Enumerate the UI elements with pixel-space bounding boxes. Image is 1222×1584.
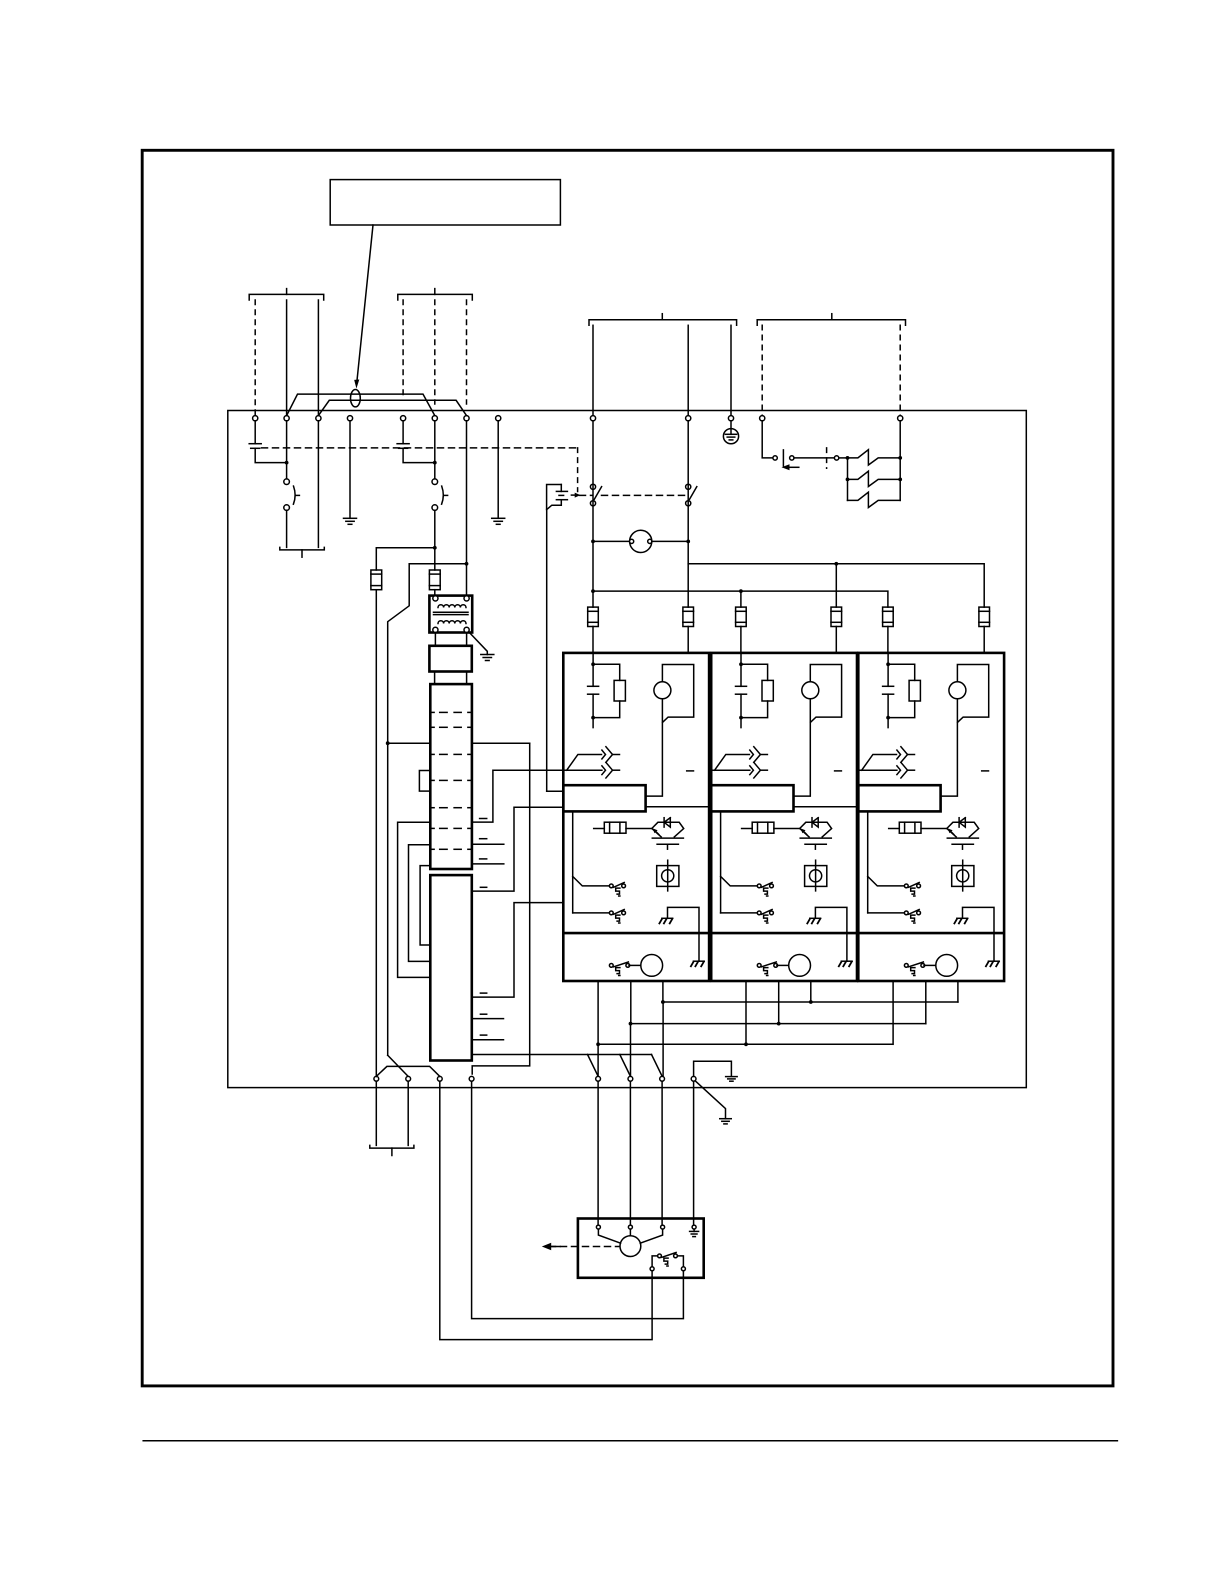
- terminal Y7: [660, 1076, 665, 1081]
- swing arrow: [542, 1243, 551, 1251]
- PM2 fan contact: [757, 964, 761, 968]
- jumper wire terminal3-terminal7: [318, 400, 466, 415]
- wire Y2 down to bracket: [407, 1081, 409, 1145]
- PM1 gate ground wire: [668, 907, 700, 961]
- sense wire node B jog to lower loom: [388, 564, 467, 1056]
- wire L3 to compressor bracket: [317, 421, 319, 548]
- wire terminal12 to door contact: [762, 421, 773, 458]
- compressor bracket 5: [280, 547, 325, 550]
- power module PM2 enclosure: [711, 653, 857, 981]
- PM1 gate resistor block: [594, 828, 605, 830]
- sense wire branch to control drop: [388, 742, 431, 744]
- PM2 plug contact P2a: [757, 884, 761, 888]
- terminal Y1: [374, 1076, 379, 1081]
- wire Y5 to CN3 pin1: [597, 1081, 599, 1225]
- PM1 terminal strip TB1: [563, 785, 645, 811]
- plug direction arrow: [782, 464, 790, 470]
- mechanical link dashed S1-S2: [580, 494, 593, 496]
- PM1 fan contact: [609, 964, 613, 968]
- PM3 output wires: [892, 981, 894, 1044]
- fuse F2: [683, 607, 694, 626]
- PM2 gate resistor block: [742, 828, 753, 830]
- PM2 section divider: [711, 932, 857, 935]
- PM3 lamp wire to strip: [941, 699, 958, 796]
- power module PM3 enclosure: [858, 653, 1004, 981]
- PM2 output wires: [745, 981, 747, 1044]
- wire F0 to terminal Y1: [375, 590, 377, 1076]
- junction on terminal6 line: [433, 461, 437, 465]
- wire drop to terminal 11: [730, 325, 732, 415]
- PM1 IGBT Q1: [652, 822, 684, 837]
- wire terminal10 through switch S2: [687, 421, 689, 607]
- bus diagonal to terminal Y5: [588, 1055, 599, 1077]
- wires CN1 to ribbon connector: [434, 672, 436, 685]
- cable bracket 3: [589, 320, 737, 326]
- wire L2 to switch K1: [286, 421, 288, 479]
- wire TH3 to module1 terminal strip: [546, 510, 548, 792]
- wire terminal9 through switch S1: [592, 421, 594, 607]
- bus diagonal to terminal Y6: [620, 1055, 631, 1077]
- PM1 output W continues: [662, 1002, 664, 1076]
- wire F5 to module3: [887, 627, 889, 653]
- terminal X13: [898, 416, 903, 421]
- CN2 pin row 6 (dashes): [431, 827, 435, 829]
- wire drop dashed to terminal 7: [466, 300, 468, 404]
- wire Y3 to remote connector: [440, 1081, 652, 1339]
- A1 pin stub e: [480, 992, 486, 994]
- pressure switch K1: [284, 479, 290, 485]
- wire Y8 to CN3 pin4: [693, 1081, 695, 1225]
- node A junction: [433, 546, 437, 550]
- jumper wire terminal2-terminal6: [287, 394, 435, 416]
- PM1 fan motor M1: [629, 964, 641, 966]
- PM2 left control wire: [720, 811, 722, 913]
- heater element R1 (break symbol): [848, 450, 901, 465]
- page border frame: [142, 150, 1113, 1386]
- PM3 capacitor C3: [887, 653, 889, 686]
- ribbon connector CN2: [430, 684, 472, 869]
- PM3 polarity dash: [982, 770, 989, 772]
- wire F7 to transformer: [434, 590, 436, 599]
- PM3 plug arrows: [858, 769, 897, 771]
- swing direction dashed line: [550, 1246, 620, 1248]
- wire terminal6 to switch K2: [434, 421, 436, 479]
- PM2 lamp wire to strip: [794, 699, 811, 796]
- leader line from label box to wire bundle: [357, 225, 373, 382]
- PM3 gate resistor block: [889, 828, 900, 830]
- interlock switch S2: [686, 484, 691, 489]
- connector CN1: [429, 646, 471, 672]
- PM1 lamp wire to strip: [646, 699, 663, 796]
- PM3 plug contact P3a: [904, 884, 908, 888]
- pressure switch K2: [432, 479, 438, 485]
- terminal X2: [284, 416, 289, 421]
- wire drop dashed to terminal 13: [899, 325, 901, 415]
- PM1 polarity dash: [687, 770, 694, 772]
- wire drop to terminal 10: [687, 325, 689, 415]
- PM2 IGBT Q2: [800, 822, 832, 837]
- fuse bus 2: [593, 591, 888, 607]
- terminal Y6: [628, 1076, 633, 1081]
- terminal Y5: [596, 1076, 601, 1081]
- PM1 plug contact P1a: [609, 884, 613, 888]
- PM2 chassis ground b: [841, 960, 852, 962]
- dashed contact tick: [826, 448, 828, 468]
- wire F4 to module2: [835, 627, 837, 653]
- CN3 pin 2: [628, 1225, 632, 1229]
- CN2 pin row 7 (dashes): [431, 848, 435, 850]
- PM2 capacitor C2: [740, 653, 742, 686]
- dashed link vertical: [577, 448, 579, 492]
- wrap wire W2: [409, 845, 431, 962]
- fuse F0: [371, 570, 382, 590]
- PM1 plug arrows: [563, 769, 602, 771]
- terminal X1: [253, 416, 258, 421]
- terminal Y3: [437, 1076, 442, 1081]
- PM2 plug arrows: [711, 769, 750, 771]
- PM3 chassis ground b: [988, 960, 999, 962]
- fuse F5: [883, 607, 894, 626]
- A1 wire to module1 edge: [472, 903, 562, 998]
- wire F3 to module2: [740, 627, 742, 653]
- junction on sense wire: [386, 741, 390, 745]
- PM3 terminal strip TB3: [858, 785, 940, 811]
- PM1 capacitor C1: [592, 653, 594, 686]
- wire F1 to module1: [592, 627, 594, 653]
- fuse F3 drop: [740, 591, 742, 607]
- fuse F4 drop: [835, 564, 837, 607]
- PM3 fan contact: [904, 964, 908, 968]
- terminal Y4: [469, 1076, 474, 1081]
- CN2 pin row 2 (dashes): [431, 726, 435, 728]
- cable bracket 2: [398, 294, 473, 300]
- interlock switch S1: [590, 484, 595, 489]
- terminal X6: [432, 416, 437, 421]
- wire K1 to compressor bracket: [286, 510, 288, 547]
- PM2 plug contact P2b: [757, 911, 761, 915]
- A1 pin stub g: [480, 1034, 486, 1036]
- defrost thermostat TH3 (plates): [547, 485, 562, 510]
- PM2 gate ground wire: [815, 907, 847, 961]
- cable bracket 1 (power supply 1): [249, 294, 324, 300]
- ground G5: [720, 1118, 732, 1120]
- wire transformer to ground G3: [469, 632, 488, 655]
- fan motor FM: [593, 540, 630, 542]
- A1 pin stub f: [480, 1013, 486, 1015]
- PM3 left control wire: [867, 811, 869, 913]
- PM3 chassis ground a: [957, 917, 968, 919]
- cable bracket 4: [757, 320, 905, 326]
- wire Y7 to CN3 pin3: [661, 1081, 663, 1225]
- wire drop dashed to terminal 6: [434, 300, 436, 404]
- strip link wire TB2-TB3: [794, 806, 859, 808]
- heater element R2 (break symbol): [848, 471, 901, 486]
- PM3 plug contact P3b: [904, 911, 908, 915]
- PM1 section divider: [563, 932, 709, 935]
- ground G4: [726, 1076, 738, 1078]
- output bus row C: [598, 1043, 893, 1045]
- PM2 chassis ground a: [810, 917, 821, 919]
- ground G1: [344, 517, 357, 519]
- wire Y4 to remote connector: [472, 1081, 684, 1318]
- PM1 output V continues: [630, 1024, 632, 1077]
- dashed link horizontal upper: [262, 447, 578, 449]
- terminal X3: [316, 416, 321, 421]
- PM2 resistor R2: [741, 664, 768, 680]
- A1 pin stub d: [480, 886, 486, 888]
- wire drop L3: [317, 300, 319, 416]
- thermal protector TH2: [402, 421, 404, 444]
- door contact CN-A: [773, 456, 777, 460]
- fuse bus 1: [688, 564, 984, 607]
- wire-bundle ellipse (loom marker): [351, 390, 361, 407]
- fuse F3: [736, 607, 747, 626]
- wire drop to terminal 9: [592, 325, 594, 415]
- outdoor unit bracket 6: [370, 1145, 414, 1148]
- bus diagonal to terminal Y7: [652, 1055, 663, 1077]
- wire drop L2: [286, 300, 288, 416]
- wire Y6 to CN3 pin2: [629, 1081, 631, 1225]
- CN3 pin4 ground: [693, 1229, 695, 1231]
- terminal Y8: [691, 1076, 696, 1081]
- terminal Y8 earth tail: [695, 1081, 725, 1119]
- wire terminal8 to ground: [497, 421, 499, 519]
- power module PM1 enclosure: [563, 653, 709, 981]
- CN3 motor wires: [598, 1229, 620, 1243]
- CN2 pin stub b: [480, 838, 487, 840]
- CN2 pin stub a: [480, 818, 487, 820]
- PM2 fan motor M2: [777, 964, 789, 966]
- wire terminal11 to protective earth: [730, 421, 732, 429]
- wire F6 to module3: [983, 627, 985, 653]
- footer rule: [143, 1440, 1117, 1442]
- CN3 pin 4: [692, 1225, 696, 1229]
- terminal X10: [686, 416, 691, 421]
- PM2 current sensor CT2: [805, 866, 827, 887]
- terminal X7: [464, 416, 469, 421]
- PM1 plug contact P1b: [609, 911, 613, 915]
- fan motor M4: [620, 1236, 641, 1257]
- wire F2 to module1: [687, 627, 689, 653]
- junction on L2: [285, 461, 289, 465]
- PM1 output U continues: [597, 1044, 599, 1076]
- terminal Y2: [406, 1076, 411, 1081]
- wire drop dashed to terminal 12: [761, 325, 763, 415]
- output bus row A: [663, 1001, 958, 1003]
- controller box A1: [430, 875, 472, 1060]
- crankcase heater ladder right rail: [899, 421, 901, 501]
- CN3 pin 3: [661, 1225, 665, 1229]
- wrap wire W3: [420, 866, 430, 945]
- CN2 key notch: [419, 771, 430, 792]
- link arrow: [571, 494, 576, 496]
- fan unit box CN3: [578, 1219, 704, 1278]
- CN3 limit contact: [658, 1254, 662, 1258]
- wire terminal7 down: [466, 421, 468, 599]
- terminal X11: [728, 416, 733, 421]
- node B junction: [465, 562, 469, 566]
- wire CN2 to module1 plug: [472, 770, 563, 822]
- thermal protector TH1 (battery-style plates): [254, 421, 256, 444]
- branch node A to fuse F0: [376, 548, 435, 570]
- PM3 section divider: [858, 932, 1004, 935]
- output bus row B: [631, 1023, 926, 1025]
- jumper terminal Y1-Y3: [376, 1066, 440, 1076]
- fuse F1: [588, 607, 599, 626]
- PM1 chassis ground b: [693, 960, 704, 962]
- PM3 charge lamp H3: [949, 682, 966, 699]
- PM1 resistor R1: [593, 664, 620, 680]
- fuse F4: [831, 607, 842, 626]
- CN2 pin stub c: [480, 858, 487, 860]
- callout label box (empty): [330, 180, 560, 225]
- crankcase heater ladder left rail: [847, 458, 849, 501]
- wire transformer to connector CN1: [434, 633, 436, 646]
- wire K2 down to node A: [434, 510, 436, 570]
- PM3 current sensor CT3: [952, 866, 974, 887]
- signal bus from A1 to terminals: [472, 1054, 652, 1056]
- terminal X5: [401, 416, 406, 421]
- heater element R3 (break symbol): [848, 492, 901, 507]
- A1 wire to module1 strip: [472, 807, 562, 891]
- CN2 pin row 5 (dashes): [431, 807, 435, 809]
- wrap wire W1: [398, 822, 431, 977]
- wire Y1 down to bracket: [375, 1081, 377, 1145]
- PM1 chassis ground a: [662, 917, 673, 919]
- terminal X8: [496, 416, 501, 421]
- CN3 bottom pin a: [652, 1256, 657, 1267]
- PM1 charge lamp H1: [654, 682, 671, 699]
- PM1 output wires: [597, 981, 599, 1044]
- PM2 polarity dash: [835, 770, 842, 772]
- protective earth symbol PE: [723, 429, 738, 444]
- wire drop dashed to terminal 5: [402, 300, 404, 400]
- terminal X4: [347, 416, 352, 421]
- PM2 terminal strip TB2: [711, 785, 793, 811]
- PM3 resistor R3: [888, 664, 915, 680]
- terminal Y8 ground loop: [694, 1061, 732, 1076]
- fuse F7 on terminal6 line: [429, 570, 440, 590]
- diagonal into terminal Y2: [388, 1055, 408, 1076]
- CN2 pin row 1 (dashes): [431, 711, 435, 713]
- CN3 bottom pin b: [678, 1256, 684, 1267]
- transformer T1: [429, 596, 472, 633]
- strip link wire TB1-TB2: [646, 806, 712, 808]
- wire drop L1 (dashed): [254, 300, 256, 415]
- main unit enclosure box: [228, 411, 1027, 1088]
- CN2 pin row 3 (dashes): [431, 753, 435, 755]
- terminal X9: [590, 416, 595, 421]
- PM2 charge lamp H2: [802, 682, 819, 699]
- PM3 fan motor M3: [924, 964, 936, 966]
- CN2 pin row 4 (dashes): [431, 779, 435, 781]
- fuse F6: [979, 607, 990, 626]
- wire terminal4 to ground: [349, 421, 351, 519]
- PM3 gate ground wire: [963, 907, 995, 961]
- PM3 IGBT Q3: [947, 822, 979, 837]
- ground G2: [492, 517, 505, 519]
- CN3 pin 1: [596, 1225, 600, 1229]
- terminal X12: [760, 416, 765, 421]
- PM1 current sensor CT1: [657, 866, 679, 887]
- ground G3: [481, 654, 494, 656]
- PM1 left control wire: [572, 811, 574, 913]
